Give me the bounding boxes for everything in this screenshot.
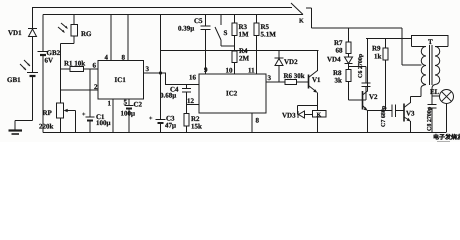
svg-text:R9: R9 [372, 45, 381, 53]
wire V3 collector chain [402, 28, 426, 103]
svg-text:IC2: IC2 [226, 90, 238, 98]
wire V1 emitter down [317, 93, 319, 111]
battery GB2 6V [38, 15, 61, 133]
svg-text:100μ: 100μ [96, 119, 111, 127]
svg-text:5: 5 [124, 99, 128, 107]
svg-text:68: 68 [336, 47, 344, 55]
svg-text:100μ: 100μ [121, 110, 136, 118]
capacitor C4 0.68u [160, 85, 191, 105]
svg-text:VD1: VD1 [8, 29, 22, 37]
battery GB1 (solar cell with light arrows) [7, 60, 38, 121]
watermark [433, 133, 460, 143]
svg-text:1: 1 [108, 100, 112, 108]
svg-text:220k: 220k [39, 123, 54, 131]
wire V2 collector line y38 [366, 38, 412, 40]
svg-text:8: 8 [256, 117, 260, 125]
transistor V3 [404, 103, 415, 133]
relay contact K at top [291, 3, 312, 28]
capacitor C7 680p [368, 105, 404, 128]
capacitor C2 100u on pin 5 [121, 99, 143, 133]
lamp EL [430, 88, 454, 133]
svg-text:.............: ............. [437, 138, 450, 142]
capacitor C6 2700p [349, 53, 371, 100]
svg-text:1k: 1k [374, 53, 382, 61]
capacitor C1 100u [82, 69, 111, 133]
svg-text:VD4: VD4 [327, 56, 341, 64]
wire IC2 pin 8 [252, 113, 260, 133]
svg-text:V1: V1 [312, 76, 321, 84]
svg-text:R6 30k: R6 30k [284, 72, 305, 80]
diode VD1 [8, 8, 37, 73]
relay coil K [313, 111, 327, 133]
potentiometer RP 220k [39, 103, 76, 133]
svg-text:S: S [224, 29, 228, 37]
wire IC1 pin 2 [61, 83, 99, 91]
resistor R8 3k [333, 64, 362, 101]
svg-text:9: 9 [204, 66, 208, 74]
svg-text:+: + [149, 116, 153, 122]
capacitor C5 0.39u [178, 15, 211, 75]
wire node chain x=160 with junction [159, 15, 162, 120]
wire IC1 pin 1 [108, 99, 114, 133]
svg-text:3k: 3k [335, 77, 343, 85]
svg-text:C2: C2 [134, 101, 143, 109]
transistor V1 [309, 71, 322, 93]
resistor R2 15k [184, 105, 202, 133]
svg-text:C8 2700p: C8 2700p [427, 106, 433, 131]
svg-text:+: + [82, 112, 86, 118]
wire rail y50 [161, 50, 319, 52]
resistor R7 68 [334, 28, 351, 55]
resistor R1 10k [61, 60, 99, 72]
svg-text:R1 10k: R1 10k [64, 60, 85, 68]
svg-text:EL: EL [430, 88, 440, 96]
svg-text:3: 3 [146, 65, 150, 73]
wire IC1 pin 4 [105, 15, 112, 62]
switch S [215, 15, 235, 47]
diode VD2 [275, 51, 299, 83]
svg-text:VD3: VD3 [282, 112, 296, 120]
wire IC1 pin 8 [122, 15, 129, 62]
svg-text:6: 6 [93, 62, 97, 70]
svg-text:V2: V2 [369, 93, 378, 101]
resistor R5 5.1M [254, 15, 276, 75]
svg-text:2M: 2M [239, 55, 250, 63]
svg-text:IC1: IC1 [115, 76, 127, 84]
wire outer top rail [32, 7, 292, 9]
resistor R3 1M [232, 15, 249, 52]
svg-text:10: 10 [226, 67, 234, 75]
resistor R4 2M [232, 47, 250, 74]
capacitor C8 2700p [427, 96, 437, 133]
svg-text:RG: RG [81, 30, 92, 38]
diode VD4 [327, 54, 353, 64]
svg-text:3: 3 [268, 74, 272, 82]
resistor R9 1k [372, 39, 388, 111]
svg-text:4: 4 [105, 54, 109, 62]
svg-text:15k: 15k [191, 123, 202, 131]
svg-text:C7 680p: C7 680p [381, 105, 387, 127]
wire IC1 pin 3 [144, 65, 161, 73]
capacitor C3 47u [149, 115, 176, 133]
svg-text:0.39μ: 0.39μ [178, 25, 194, 33]
svg-text:VD2: VD2 [284, 58, 298, 66]
svg-text:RP: RP [43, 109, 53, 117]
svg-text:V3: V3 [406, 110, 415, 118]
diode VD3 [282, 106, 318, 120]
svg-text:C6 2700p: C6 2700p [358, 53, 364, 78]
wire supply line y28 [312, 27, 403, 29]
resistor R6 30k [284, 72, 309, 85]
photoresistor RG [58, 15, 92, 44]
svg-text:GB1: GB1 [7, 76, 21, 84]
wire inner top rail [43, 14, 303, 16]
transistor V2 [363, 39, 379, 133]
wire divider node vertical [60, 44, 62, 104]
svg-text:8: 8 [122, 54, 126, 62]
op-amp/timer IC1 [98, 61, 144, 100]
svg-text:11: 11 [248, 67, 255, 75]
transformer T [412, 36, 449, 97]
wire IC2 pin3 to R6 [266, 81, 285, 83]
svg-text:K: K [299, 19, 304, 25]
svg-text:47μ: 47μ [165, 122, 176, 130]
wire bottom ground rail [43, 132, 446, 134]
svg-text:2: 2 [94, 83, 98, 91]
svg-text:0.68μ: 0.68μ [160, 92, 176, 100]
svg-text:12: 12 [187, 97, 195, 105]
svg-text:1M: 1M [239, 31, 250, 39]
wire pin3 node to IC2 pin16 [161, 73, 200, 85]
wire V1 collector to rail [317, 51, 319, 72]
svg-text:T: T [428, 38, 433, 46]
svg-text:6V: 6V [45, 57, 54, 65]
svg-text:5.1M: 5.1M [261, 31, 277, 39]
wire IC2 pin 12 lead [187, 104, 200, 106]
svg-text:C5: C5 [194, 17, 203, 25]
svg-text:16: 16 [189, 74, 197, 82]
op-amp IC2 [199, 74, 266, 113]
ground [9, 121, 33, 135]
